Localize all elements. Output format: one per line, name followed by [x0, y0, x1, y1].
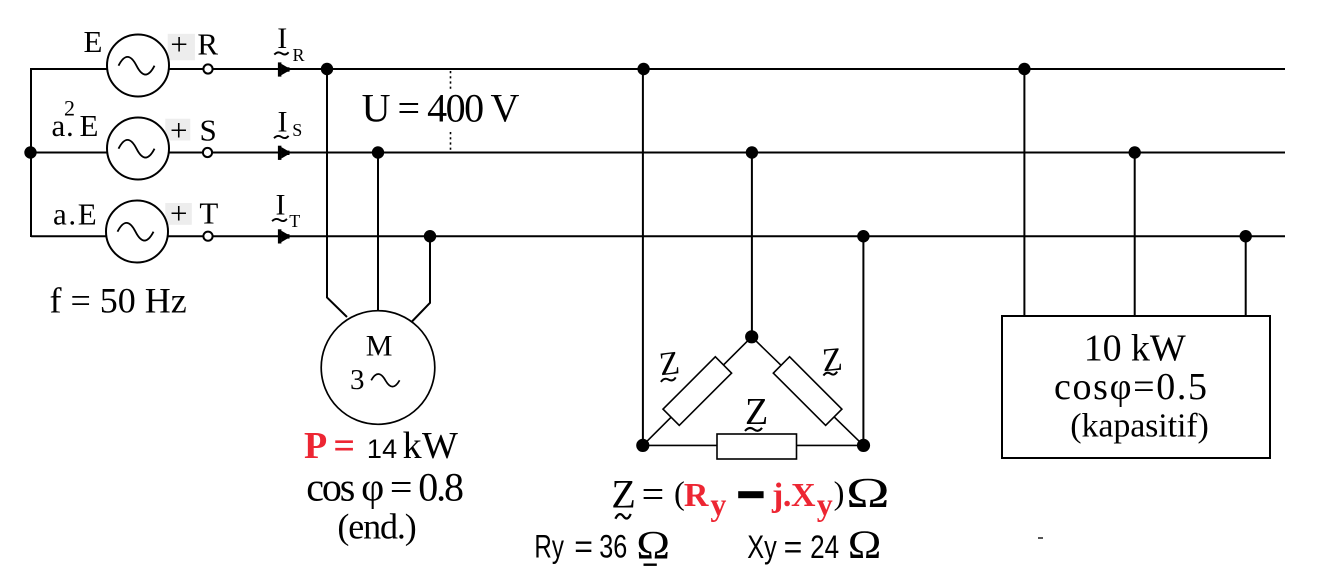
svg-text:y: y	[710, 486, 726, 522]
svg-text:cosφ=0.5: cosφ=0.5	[1054, 366, 1207, 408]
svg-text:E: E	[80, 108, 99, 143]
svg-text:24: 24	[810, 529, 839, 565]
svg-text:R: R	[684, 477, 709, 514]
svg-text:I: I	[278, 106, 288, 139]
svg-text:=: =	[574, 529, 593, 565]
svg-text:Z: Z	[745, 391, 768, 433]
svg-text:y: y	[817, 486, 833, 522]
svg-text:I: I	[276, 188, 286, 221]
svg-text:M: M	[366, 329, 393, 362]
svg-text:Ω: Ω	[636, 523, 670, 568]
svg-text:+ S: + S	[170, 113, 217, 148]
svg-text:f = 50 Hz: f = 50 Hz	[50, 281, 187, 321]
svg-text:+ T: + T	[170, 196, 218, 231]
svg-text:(kapasitif): (kapasitif)	[1070, 408, 1209, 445]
svg-text:36: 36	[599, 529, 627, 565]
svg-text:kW: kW	[403, 425, 458, 467]
svg-text:S: S	[292, 120, 302, 140]
svg-text:2: 2	[64, 96, 75, 121]
svg-text:R: R	[293, 45, 305, 65]
svg-text:j.X: j.X	[771, 477, 816, 514]
svg-text:Ω: Ω	[848, 522, 882, 567]
svg-text:Ω: Ω	[846, 471, 890, 517]
svg-text:): )	[834, 476, 845, 512]
svg-text:T: T	[289, 211, 300, 231]
svg-text:10 kW: 10 kW	[1084, 327, 1186, 369]
svg-text:Xy: Xy	[747, 529, 777, 565]
svg-text:cos φ = 0.8: cos φ = 0.8	[306, 464, 464, 509]
svg-text:U = 400 V: U = 400 V	[362, 85, 520, 130]
svg-text:E: E	[84, 24, 103, 59]
svg-text:Ry: Ry	[534, 529, 564, 565]
svg-text:+ R: + R	[170, 27, 218, 62]
svg-text:3: 3	[350, 364, 365, 396]
svg-text:a.E: a.E	[53, 197, 97, 232]
svg-text:(end.): (end.)	[337, 506, 416, 546]
svg-text:I: I	[277, 22, 287, 55]
svg-text:Z: Z	[611, 472, 635, 517]
svg-text:P =: P =	[304, 425, 355, 467]
svg-text:=: =	[784, 529, 803, 565]
svg-text:=: =	[642, 472, 665, 517]
svg-text:14: 14	[367, 434, 397, 464]
